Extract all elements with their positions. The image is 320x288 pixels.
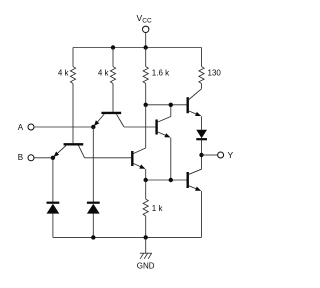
transistor Q5 (output pull-up) bbox=[188, 89, 202, 130]
svg-text:CC: CC bbox=[142, 18, 152, 25]
junction node C / R3 column bbox=[144, 103, 148, 107]
svg-text:4 k: 4 k bbox=[58, 68, 70, 77]
wire ground rail bbox=[53, 236, 202, 238]
wire R3 column down to Q4 collector (crosses Q3 base wire) bbox=[145, 105, 147, 148]
ground symbol GND bbox=[137, 237, 155, 270]
svg-text:Y: Y bbox=[228, 150, 234, 160]
wire Q2 collector to Q4 base (crosses diode D1 column) bbox=[85, 157, 132, 159]
junction rail / D1 bbox=[91, 235, 95, 239]
junction node E / R5 top bbox=[144, 178, 148, 182]
wire R3 to node C junction bbox=[145, 84, 147, 105]
junction rail / VCC stem bbox=[144, 45, 148, 49]
svg-text:B: B bbox=[18, 153, 23, 162]
resistor R1 4k bbox=[58, 48, 76, 84]
wire R2 to Q1 base bbox=[112, 84, 114, 112]
resistor R5 1k bbox=[143, 180, 163, 237]
resistor R4 130 bbox=[199, 48, 221, 84]
wire VCC top rail bbox=[73, 47, 202, 49]
transistor Q6 (output pull-down) bbox=[188, 155, 202, 237]
diode D3 (level shifter) bbox=[196, 130, 207, 155]
resistor R3 1.6k bbox=[143, 48, 170, 84]
junction node C / Q3 collector bbox=[169, 103, 173, 107]
junction input B / diode D2 bbox=[51, 156, 55, 160]
junction rail / R2 bbox=[111, 45, 115, 49]
transistor Q4 (phase splitter, B side) bbox=[132, 148, 145, 180]
input terminal A bbox=[18, 123, 34, 132]
svg-text:1.6 k: 1.6 k bbox=[152, 68, 170, 77]
output node Y junction bbox=[199, 153, 203, 157]
svg-text:A: A bbox=[18, 123, 24, 132]
junction input A / diode D1 bbox=[91, 125, 95, 129]
wire Q1 collector to Q3 base (crosses R3 column) bbox=[124, 126, 155, 128]
wire R1 to Q2 base (crosses input A line) bbox=[72, 84, 74, 144]
svg-text:GND: GND bbox=[137, 262, 155, 271]
transistor Q1 (input A) bbox=[94, 113, 124, 127]
transistor Q3 (phase splitter, A side) bbox=[157, 105, 171, 180]
wire R4 to Q5 collector bbox=[201, 84, 203, 89]
wire input B to Q2 emitter bbox=[34, 157, 53, 159]
junction rail / GND stem bbox=[144, 235, 148, 239]
wire node C: R3 to splitter collectors to Q5 base bbox=[146, 104, 187, 106]
transistor Q2 (input B) bbox=[54, 144, 85, 158]
output terminal Y bbox=[218, 150, 234, 160]
svg-text:1 k: 1 k bbox=[152, 204, 164, 213]
wire node E: splitter emitters to R5 and Q6 base bbox=[146, 179, 187, 181]
wire to output terminal Y bbox=[202, 154, 218, 156]
input terminal B bbox=[18, 153, 34, 162]
diode D1 (input A clamp) bbox=[87, 127, 100, 237]
wire input A to Q1 emitter (crosses R1 column) bbox=[34, 126, 93, 128]
svg-text:130: 130 bbox=[208, 68, 222, 77]
power terminal VCC bbox=[137, 13, 152, 48]
resistor R2 4k bbox=[98, 48, 116, 84]
svg-text:4 k: 4 k bbox=[98, 68, 110, 77]
diode D2 (input B clamp) bbox=[47, 158, 60, 238]
junction node E / Q3 emitter bbox=[169, 178, 173, 182]
